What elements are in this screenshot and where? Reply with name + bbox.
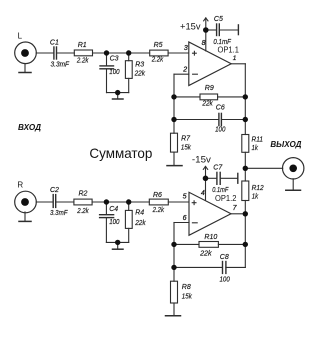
svg-text:1: 1 (233, 55, 237, 62)
svg-text:C3: C3 (110, 56, 119, 63)
svg-text:C4: C4 (109, 206, 118, 213)
svg-text:4: 4 (201, 190, 205, 197)
svg-text:R6: R6 (153, 192, 162, 199)
svg-text:3.3mF: 3.3mF (51, 61, 70, 68)
svg-text:22k: 22k (201, 101, 213, 108)
svg-text:C6: C6 (216, 105, 225, 112)
svg-text:2.2k: 2.2k (76, 208, 89, 215)
svg-text:2: 2 (182, 67, 187, 74)
svg-text:100: 100 (109, 219, 119, 226)
svg-text:3: 3 (184, 45, 188, 52)
svg-text:R2: R2 (79, 190, 88, 197)
svg-text:5: 5 (183, 194, 187, 201)
svg-text:6: 6 (183, 215, 187, 222)
svg-text:2.2k: 2.2k (151, 57, 164, 64)
svg-text:R10: R10 (204, 234, 217, 241)
svg-text:15k: 15k (182, 294, 192, 301)
svg-text:OP1.2: OP1.2 (215, 194, 236, 203)
svg-text:100: 100 (215, 127, 225, 134)
svg-text:R1: R1 (78, 42, 87, 49)
svg-text:R8: R8 (182, 284, 191, 291)
svg-text:100: 100 (109, 69, 119, 76)
svg-text:Сумматор: Сумматор (89, 145, 152, 161)
svg-text:22k: 22k (199, 251, 212, 258)
svg-text:C7: C7 (213, 165, 223, 172)
svg-text:C5: C5 (214, 16, 223, 23)
svg-text:0.1mF: 0.1mF (213, 39, 231, 46)
svg-text:-15v: -15v (192, 154, 211, 165)
svg-text:OP1.1: OP1.1 (218, 45, 239, 54)
svg-text:1k: 1k (252, 194, 259, 201)
svg-text:R11: R11 (252, 136, 264, 143)
svg-text:ВЫХОД: ВЫХОД (270, 140, 301, 149)
svg-text:15k: 15k (181, 144, 191, 151)
svg-text:22k: 22k (134, 70, 146, 77)
svg-text:R5: R5 (154, 42, 163, 49)
svg-text:22k: 22k (134, 220, 146, 227)
svg-text:R: R (17, 181, 23, 190)
svg-text:R3: R3 (135, 62, 144, 69)
svg-text:2.2k: 2.2k (152, 207, 165, 214)
svg-text:100: 100 (220, 276, 230, 283)
svg-text:0.1mF: 0.1mF (212, 187, 229, 194)
svg-text:R4: R4 (135, 210, 144, 217)
svg-text:C8: C8 (220, 254, 229, 261)
svg-text:R9: R9 (205, 85, 214, 92)
svg-text:L: L (18, 32, 23, 41)
svg-text:R12: R12 (252, 185, 264, 192)
svg-text:C2: C2 (50, 187, 59, 194)
svg-text:ВХОД: ВХОД (18, 123, 41, 132)
svg-text:1k: 1k (252, 145, 259, 152)
svg-text:8: 8 (202, 40, 206, 47)
svg-text:2.2k: 2.2k (76, 58, 89, 65)
svg-text:3.3mF: 3.3mF (50, 210, 68, 217)
svg-text:R7: R7 (181, 135, 191, 142)
svg-text:+15v: +15v (180, 21, 201, 32)
svg-text:C1: C1 (50, 40, 59, 47)
